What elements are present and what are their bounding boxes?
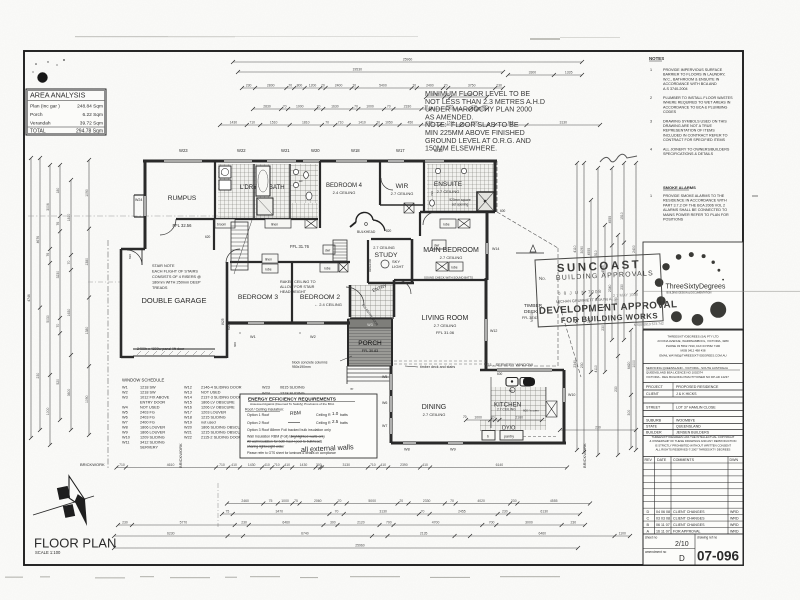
svg-text:not used: not used: [201, 421, 216, 425]
svg-text:STUDY: STUDY: [374, 252, 398, 259]
svg-text:600 f s oven: 600 f s oven: [523, 409, 539, 413]
svg-text:EMAIL WAYNE@THREESIXTYDEGREE: EMAIL WAYNE@THREESIXTYDEGREES.COM.AU: [659, 353, 726, 357]
svg-text:W20: W20: [311, 148, 320, 153]
svg-text:CLIENT CHANGES: CLIENT CHANGES: [673, 517, 705, 521]
svg-text:1012 FIX ABOVE: 1012 FIX ABOVE: [140, 396, 170, 400]
svg-text:Please refer to GTS sheet for: Please refer to GTS sheet for laminars &…: [247, 451, 336, 455]
svg-text:FFL 32.56: FFL 32.56: [173, 223, 193, 228]
svg-text:Assessed Against (Deemed To Sa: Assessed Against (Deemed To Satisfy) Pro…: [250, 402, 335, 406]
svg-text:4555: 4555: [550, 499, 558, 503]
svg-text:W22: W22: [184, 436, 192, 440]
svg-text:6230: 6230: [167, 532, 175, 536]
svg-text:WRD: WRD: [730, 523, 739, 527]
svg-text:300: 300: [316, 463, 322, 467]
svg-text:300: 300: [330, 521, 336, 525]
svg-text:PROJECT: PROJECT: [646, 385, 664, 389]
svg-text:70: 70: [338, 499, 342, 503]
svg-text:1000: 1000: [296, 105, 304, 109]
svg-text:Roof / Ceiling Insulation:: Roof / Ceiling Insulation:: [245, 408, 284, 412]
svg-text:W5: W5: [382, 375, 387, 379]
svg-text:70: 70: [56, 324, 60, 328]
svg-text:70: 70: [450, 499, 454, 503]
svg-text:SERVERY: SERVERY: [140, 446, 158, 450]
svg-text:2390: 2390: [400, 463, 408, 467]
svg-text:700: 700: [489, 521, 495, 525]
svg-text:23 IONA AVENUE, WARRNAMBOOL,: 23 IONA AVENUE, WARRNAMBOOL, VICTORIA, 3…: [657, 339, 729, 343]
svg-text:CODES: CODES: [663, 110, 677, 114]
svg-text:INCLUDED IN CONTRACT REFER T: INCLUDED IN CONTRACT REFER TO: [663, 133, 728, 137]
svg-text:600: 600: [497, 372, 503, 376]
svg-text:70: 70: [288, 84, 292, 88]
svg-text:BUILDER: BUILDER: [646, 430, 662, 434]
svg-text:04 06 08: 04 06 08: [656, 510, 670, 514]
svg-text:710: 710: [338, 121, 344, 125]
svg-text:230: 230: [511, 499, 517, 503]
svg-text:A.S 3740-2004: A.S 3740-2004: [663, 87, 688, 91]
svg-text:180mm WITH 250mm DEEP: 180mm WITH 250mm DEEP: [152, 281, 201, 285]
svg-text:JENSEN BUILDERS: JENSEN BUILDERS: [676, 430, 710, 434]
svg-text:1090: 1090: [85, 395, 89, 403]
svg-text:NOTE:- FLOOR SLAB TO BE: NOTE:- FLOOR SLAB TO BE: [425, 121, 519, 129]
svg-text:W7: W7: [122, 421, 128, 425]
svg-text:19530: 19530: [353, 68, 363, 72]
svg-text:D: D: [679, 554, 685, 563]
svg-text:2060: 2060: [314, 499, 322, 503]
svg-text:SERVICING QUEENSLAND - VICTO: SERVICING QUEENSLAND - VICTORIA - SOUTH …: [646, 366, 728, 370]
svg-text:BRICKWORK: BRICKWORK: [582, 443, 587, 468]
svg-text:DRAWING ARE NOT A TRUE: DRAWING ARE NOT A TRUE: [663, 124, 712, 128]
svg-text:2135: 2135: [420, 532, 428, 536]
svg-text:CLIENT: CLIENT: [646, 392, 660, 396]
svg-text:1218 SW: 1218 SW: [140, 391, 156, 395]
svg-text:W14: W14: [492, 247, 499, 251]
svg-text:NOT LESS THAN 2.3 METRES A.H.D: NOT LESS THAN 2.3 METRES A.H.D: [425, 98, 545, 106]
svg-text:W16: W16: [184, 406, 192, 410]
svg-text:710: 710: [249, 121, 255, 125]
svg-text:W20: W20: [184, 426, 192, 430]
svg-text:CLIENT CHANGES: CLIENT CHANGES: [673, 510, 705, 514]
svg-text:1218 SW: 1218 SW: [140, 386, 156, 390]
svg-text:25960: 25960: [355, 544, 365, 548]
svg-text:1380: 1380: [85, 327, 89, 335]
svg-text:W8: W8: [404, 448, 410, 452]
svg-text:4746: 4746: [27, 294, 31, 302]
svg-text:70: 70: [335, 510, 339, 514]
svg-text:3000: 3000: [525, 521, 533, 525]
svg-text:1000: 1000: [632, 360, 636, 368]
svg-text:STAIR NOTE: STAIR NOTE: [152, 264, 175, 268]
svg-text:5000: 5000: [368, 499, 376, 503]
svg-text:RUMPUS: RUMPUS: [168, 195, 197, 202]
svg-text:W9: W9: [450, 448, 456, 452]
svg-text:70: 70: [352, 84, 356, 88]
svg-text:4555: 4555: [608, 216, 612, 224]
svg-text:1215 SLIDING OBSCURE: 1215 SLIDING OBSCURE: [201, 431, 246, 435]
svg-text:2340: 2340: [608, 285, 612, 293]
svg-text:BARRIER TO FLOORS IN LAUNDRY: BARRIER TO FLOORS IN LAUNDRY,: [663, 73, 725, 77]
svg-text:Porch: Porch: [30, 112, 43, 118]
svg-text:W8: W8: [122, 426, 128, 430]
svg-text:03 03 08: 03 03 08: [656, 517, 670, 521]
svg-text:broom: broom: [217, 223, 226, 227]
svg-text:6740: 6740: [301, 532, 309, 536]
svg-text:230: 230: [122, 521, 128, 525]
svg-text:1430: 1430: [300, 463, 308, 467]
svg-text:6460: 6460: [282, 521, 290, 525]
svg-text:W23: W23: [179, 148, 188, 153]
svg-text:robe: robe: [451, 266, 458, 270]
svg-text:1806 SLIDING OBSCURE: 1806 SLIDING OBSCURE: [201, 426, 246, 430]
svg-text:WRD: WRD: [730, 510, 739, 514]
svg-text:set opening: set opening: [452, 203, 469, 207]
svg-text:CONTRACT FOR SPECIFIED ITEMS: CONTRACT FOR SPECIFIED ITEMS: [663, 138, 726, 142]
svg-text:W10: W10: [568, 393, 575, 397]
svg-text:2/10: 2/10: [675, 541, 689, 548]
svg-text:Option 2 Roof: Option 2 Roof: [247, 421, 269, 425]
svg-text:410: 410: [264, 463, 270, 467]
svg-text:2.4 CEILING: 2.4 CEILING: [333, 190, 356, 195]
svg-text:2146-4 SLIDING DOOR: 2146-4 SLIDING DOOR: [201, 386, 242, 390]
svg-text:WINDOW SCHEDULE: WINDOW SCHEDULE: [122, 378, 165, 383]
svg-text:520: 520: [56, 379, 60, 385]
svg-text:MINIMUM FLOOR LEVEL TO BE: MINIMUM FLOOR LEVEL TO BE: [425, 90, 530, 98]
svg-text:2460: 2460: [241, 499, 249, 503]
svg-text:W14: W14: [184, 396, 192, 400]
svg-text:3300: 3300: [529, 71, 537, 75]
svg-text:W17: W17: [396, 148, 405, 153]
svg-text:1806 LOUVER: 1806 LOUVER: [140, 426, 165, 430]
svg-text:2403 FG: 2403 FG: [140, 416, 155, 420]
svg-text:FLOOR PLAN: FLOOR PLAN: [34, 536, 116, 551]
svg-text:2115-2 SLIDING DOOR: 2115-2 SLIDING DOOR: [201, 436, 241, 440]
svg-text:2.7 CEILING: 2.7 CEILING: [391, 191, 414, 196]
svg-text:LIGHT: LIGHT: [392, 264, 404, 269]
svg-text:W2: W2: [122, 391, 128, 395]
svg-text:Verandah: Verandah: [30, 121, 51, 127]
svg-text:linen: linen: [265, 258, 272, 262]
svg-text:1510: 1510: [270, 121, 278, 125]
svg-text:1090: 1090: [85, 189, 89, 197]
svg-text:W1: W1: [250, 335, 256, 339]
svg-text:230: 230: [580, 362, 584, 368]
svg-text:710: 710: [219, 463, 225, 467]
svg-text:COMMENTS: COMMENTS: [673, 458, 695, 462]
svg-text:D: D: [647, 510, 650, 514]
svg-text:wb: wb: [509, 389, 513, 393]
svg-text:← 2.4 CEILING: ← 2.4 CEILING: [314, 302, 342, 307]
svg-text:W19: W19: [184, 421, 192, 425]
svg-text:4610: 4610: [167, 463, 175, 467]
svg-text:FFL 31.06: FFL 31.06: [436, 330, 455, 335]
svg-text:W1: W1: [122, 386, 128, 390]
svg-text:pantry: pantry: [504, 435, 514, 439]
svg-text:WRD: WRD: [730, 517, 739, 521]
svg-text:1430: 1430: [248, 463, 256, 467]
svg-text:5770: 5770: [180, 521, 188, 525]
svg-text:W10: W10: [122, 436, 130, 440]
svg-text:230: 230: [595, 426, 601, 430]
svg-text:DINING: DINING: [422, 404, 447, 411]
svg-text:up: up: [350, 387, 354, 391]
svg-text:294.78 Sqm: 294.78 Sqm: [76, 129, 103, 135]
svg-text:1.0: 1.0: [332, 411, 339, 416]
svg-text:70: 70: [491, 416, 495, 420]
svg-text:W17: W17: [184, 411, 192, 415]
svg-text:3600: 3600: [67, 389, 71, 397]
svg-text:MAIN BEDROOM: MAIN BEDROOM: [423, 247, 479, 254]
svg-text:3130: 3130: [342, 463, 350, 467]
svg-text:2.7 CEILING: 2.7 CEILING: [440, 255, 463, 260]
svg-text:1050: 1050: [385, 121, 393, 125]
svg-text:1: 1: [650, 68, 652, 72]
svg-text:L'DRY: L'DRY: [240, 185, 257, 191]
svg-text:MS(08): MS(08): [530, 311, 534, 322]
svg-text:W23: W23: [262, 386, 270, 390]
svg-text:BATH: BATH: [269, 185, 285, 191]
svg-text:230: 230: [502, 510, 508, 514]
svg-text:HEAD HEIGHT: HEAD HEIGHT: [280, 290, 307, 294]
svg-text:WOOMBYE: WOOMBYE: [676, 418, 696, 422]
svg-text:W12: W12: [490, 329, 497, 333]
svg-text:REPRESENTATION OF ITEMS: REPRESENTATION OF ITEMS: [663, 129, 715, 133]
svg-text:W7: W7: [382, 424, 387, 428]
svg-text:700: 700: [386, 521, 392, 525]
svg-text:Ceiling R: Ceiling R: [316, 413, 331, 417]
svg-text:2.5: 2.5: [332, 419, 339, 424]
svg-text:ALARMS SHALL BE CONNECTED TO: ALARMS SHALL BE CONNECTED TO: [663, 208, 727, 212]
svg-text:STREET: STREET: [646, 405, 661, 409]
svg-text:70: 70: [67, 261, 71, 265]
svg-text:3412 SLIDING: 3412 SLIDING: [140, 441, 165, 445]
svg-text:REV: REV: [645, 458, 653, 462]
svg-text:W4: W4: [122, 406, 128, 410]
svg-text:2330: 2330: [423, 499, 431, 503]
svg-text:POSITIONS: POSITIONS: [663, 218, 684, 222]
svg-text:ENTRY DOOR: ENTRY DOOR: [140, 401, 165, 405]
svg-text:DRAWING SYMBOLS USED ON THIS: DRAWING SYMBOLS USED ON THIS: [663, 119, 727, 123]
svg-text:FFL 31.76: FFL 31.76: [290, 244, 310, 249]
svg-text:5400: 5400: [379, 84, 387, 88]
svg-text:2400 FG: 2400 FG: [140, 421, 155, 425]
svg-text:2.7 CEILING: 2.7 CEILING: [497, 408, 516, 412]
svg-text:230: 230: [36, 373, 40, 379]
svg-text:EACH FLIGHT OF STAIRS: EACH FLIGHT OF STAIRS: [152, 270, 198, 274]
svg-text:2830: 2830: [263, 105, 271, 109]
svg-text:4110: 4110: [573, 245, 577, 252]
svg-text:2800: 2800: [267, 84, 275, 88]
svg-text:NOT USED: NOT USED: [201, 391, 221, 395]
svg-text:230: 230: [620, 284, 624, 290]
svg-text:VICTORIA - REG BUILDING PRACT: VICTORIA - REG BUILDING PRACTITIONER NO …: [646, 375, 729, 379]
svg-text:1215 SLIDING: 1215 SLIDING: [201, 416, 226, 420]
svg-text:LIVING ROOM: LIVING ROOM: [422, 315, 469, 322]
svg-text:J & K HICKS: J & K HICKS: [676, 392, 697, 396]
svg-text:dwr: dwr: [325, 249, 331, 253]
svg-text:150MM ELSEWHERE.: 150MM ELSEWHERE.: [425, 145, 497, 153]
svg-text:LOT 37 HAMLIN CLOSE: LOT 37 HAMLIN CLOSE: [676, 405, 716, 409]
svg-text:ENERGY EFFICIENCY REQUIREMENTS: ENERGY EFFICIENCY REQUIREMENTS: [248, 397, 336, 402]
svg-text:75: 75: [294, 499, 298, 503]
svg-text:W6: W6: [122, 416, 128, 420]
svg-text:710: 710: [274, 463, 280, 467]
svg-text:710: 710: [370, 463, 376, 467]
svg-text:RAKED CEILING TO: RAKED CEILING TO: [280, 280, 316, 284]
svg-text:AS AMENDED.: AS AMENDED.: [425, 113, 474, 121]
svg-text:16 11 07: 16 11 07: [656, 530, 670, 534]
svg-text:1810: 1810: [67, 214, 71, 222]
svg-text:70: 70: [325, 121, 329, 125]
svg-text:PROVIDE IMPERVIOUS SURFACE: PROVIDE IMPERVIOUS SURFACE: [663, 68, 723, 72]
svg-text:1410: 1410: [358, 121, 366, 125]
svg-text:76: 76: [56, 222, 60, 226]
svg-text:sheet no: sheet no: [645, 536, 657, 540]
svg-text:PROVIDE SMOKE ALARMS TO THE: PROVIDE SMOKE ALARMS TO THE: [663, 194, 725, 198]
svg-text:1200: 1200: [309, 84, 317, 88]
svg-text:1806 LV OBSCURE: 1806 LV OBSCURE: [201, 401, 235, 405]
svg-text:GROUND LEVEL AT O.R.G. AND: GROUND LEVEL AT O.R.G. AND: [425, 137, 531, 145]
svg-text:W2: W2: [310, 335, 316, 339]
svg-text:NOT USED: NOT USED: [140, 406, 160, 410]
svg-text:W5: W5: [122, 411, 128, 415]
svg-text:W6: W6: [382, 401, 387, 405]
svg-text:70: 70: [421, 510, 425, 514]
svg-text:UNDER MAROOCHY PLAN 2000: UNDER MAROOCHY PLAN 2000: [425, 106, 532, 114]
svg-text:1510: 1510: [620, 212, 624, 220]
svg-text:1206 LV OBSCURE: 1206 LV OBSCURE: [201, 406, 235, 410]
svg-text:BULKHEAD: BULKHEAD: [357, 230, 376, 234]
svg-text:6420: 6420: [627, 362, 631, 370]
svg-text:1630: 1630: [331, 105, 339, 109]
svg-text:2: 2: [650, 96, 652, 100]
svg-text:ThreeSixtyDegrees: ThreeSixtyDegrees: [666, 284, 726, 291]
svg-text:C: C: [647, 517, 650, 521]
svg-text:230: 230: [570, 521, 576, 525]
svg-text:248.84 Sqm: 248.84 Sqm: [77, 104, 103, 110]
svg-text:75: 75: [225, 510, 229, 514]
svg-text:PLUMBER TO INSTALL FLOOR WASTE: PLUMBER TO INSTALL FLOOR WASTES: [663, 96, 733, 100]
svg-text:76: 76: [46, 253, 50, 257]
svg-text:DOUBLE GARAGE: DOUBLE GARAGE: [141, 296, 206, 305]
svg-text:720: 720: [430, 191, 434, 196]
svg-text:PART 3.7.2 OF THE BCA 2006 VOL: PART 3.7.2 OF THE BCA 2006 VOL 2: [663, 203, 725, 207]
svg-text:230: 230: [496, 84, 502, 88]
svg-text:620: 620: [205, 235, 211, 239]
svg-text:MIN 225MM ABOVE FINISHED: MIN 225MM ABOVE FINISHED: [425, 129, 525, 137]
svg-text:3470: 3470: [276, 510, 284, 514]
svg-text:6460: 6460: [539, 532, 547, 536]
svg-text:wc: wc: [299, 179, 303, 183]
svg-text:70: 70: [399, 499, 403, 503]
svg-text:1100: 1100: [619, 532, 626, 536]
svg-text:MOB 0412 498 438: MOB 0412 498 438: [680, 349, 705, 353]
svg-text:70: 70: [463, 415, 467, 419]
svg-text:ALLOW FOR STAIR: ALLOW FOR STAIR: [280, 285, 315, 289]
svg-text:2137-3 SLIDING DOOR: 2137-3 SLIDING DOOR: [201, 396, 242, 400]
svg-text:Ceiling R: Ceiling R: [316, 421, 331, 425]
svg-text:6.22 Sqm: 6.22 Sqm: [82, 112, 103, 118]
svg-text:WHERE REQUIRED TO WET AREAS IN: WHERE REQUIRED TO WET AREAS IN: [663, 101, 731, 105]
svg-text:410: 410: [284, 463, 290, 467]
svg-text:W11: W11: [122, 441, 130, 445]
svg-text:410: 410: [231, 463, 237, 467]
svg-text:1000: 1000: [46, 408, 50, 416]
svg-text:3130: 3130: [379, 510, 387, 514]
svg-text:QUEENSLAND BSA LICENCE NO 10: QUEENSLAND BSA LICENCE NO 1002374: [646, 371, 703, 375]
svg-text:1: 1: [650, 194, 652, 198]
svg-text:4555: 4555: [587, 248, 591, 256]
svg-text:230: 230: [246, 84, 252, 88]
svg-text:DATE: DATE: [657, 458, 667, 462]
svg-text:4676: 4676: [36, 236, 40, 244]
svg-text:25960: 25960: [403, 58, 413, 62]
svg-text:1430: 1430: [230, 121, 238, 125]
svg-text:3750: 3750: [468, 84, 476, 88]
svg-text:4110: 4110: [594, 365, 598, 372]
svg-text:39.72 Sqm: 39.72 Sqm: [80, 121, 103, 127]
svg-text:robe: robe: [324, 267, 331, 271]
svg-text:07-096: 07-096: [697, 549, 740, 564]
svg-text:800: 800: [297, 84, 303, 88]
svg-text:1000: 1000: [366, 105, 374, 109]
svg-text:2330: 2330: [404, 105, 412, 109]
svg-text:block concrete columns: block concrete columns: [292, 361, 328, 365]
svg-text:1806 LOUVER: 1806 LOUVER: [140, 431, 165, 435]
svg-text:230: 230: [241, 521, 247, 525]
svg-text:W21: W21: [281, 148, 290, 153]
svg-text:2.7 CEILING: 2.7 CEILING: [423, 412, 446, 417]
svg-text:W24: W24: [135, 198, 142, 202]
svg-text:Plan (inc gar ): Plan (inc gar ): [30, 104, 60, 110]
svg-text:2.7 CEILING: 2.7 CEILING: [373, 246, 395, 250]
svg-text:950x190mm: 950x190mm: [292, 365, 311, 369]
svg-text:THREESIXTYDEGREES (SA) PTY LTD: THREESIXTYDEGREES (SA) PTY LTD: [667, 335, 718, 339]
svg-text:ENSUITE: ENSUITE: [434, 181, 463, 188]
svg-text:ALL JOINERY TO OWNERS/BUILDERS: ALL JOINERY TO OWNERS/BUILDERS: [663, 147, 730, 151]
svg-text:2400: 2400: [632, 245, 636, 253]
svg-text:timber deck and stairs: timber deck and stairs: [420, 365, 455, 369]
svg-text:2.7 CEILING: 2.7 CEILING: [434, 323, 457, 328]
svg-text:b: b: [487, 435, 489, 439]
svg-text:3230: 3230: [56, 271, 60, 279]
svg-text:2120: 2120: [357, 521, 365, 525]
svg-text:Wall Insulation RBM (Foil) t: Wall Insulation RBM (Foil) to: [247, 435, 292, 439]
svg-text:4700: 4700: [432, 521, 440, 525]
svg-text:450: 450: [407, 121, 413, 125]
svg-text:W13: W13: [184, 391, 192, 395]
svg-text:70: 70: [376, 121, 380, 125]
svg-text:1000: 1000: [281, 499, 289, 503]
svg-text:CONSISTS OF 4 RISERS @: CONSISTS OF 4 RISERS @: [152, 275, 201, 279]
svg-text:6130: 6130: [540, 510, 548, 514]
svg-text:PHONE 03 5562 7190, FAX 03 5: PHONE 03 5562 7190, FAX 03 5562 7190: [666, 344, 721, 348]
svg-text:W9: W9: [122, 431, 128, 435]
svg-text:W12: W12: [184, 386, 192, 390]
svg-text:BEDROOM 4: BEDROOM 4: [326, 183, 363, 189]
svg-text:W3: W3: [367, 323, 372, 327]
svg-text:DY/O: DY/O: [502, 426, 516, 432]
svg-text:230: 230: [614, 386, 618, 392]
svg-text:3: 3: [650, 119, 652, 123]
svg-text:W.C., BATHROOM & ENSUITE IN: W.C., BATHROOM & ENSUITE IN: [663, 77, 720, 81]
svg-text:BRICKWORK: BRICKWORK: [80, 462, 105, 467]
svg-text:WIR: WIR: [396, 183, 409, 190]
svg-text:ALL RIGHTS RESERVED © 2007 TH: ALL RIGHTS RESERVED © 2007 THREESIXTY DE…: [656, 448, 731, 452]
svg-text:70: 70: [444, 84, 448, 88]
svg-text:NOTES: NOTES: [649, 56, 664, 61]
svg-text:RESIDENCE IN ACCORDANCE WITH: RESIDENCE IN ACCORDANCE WITH: [663, 199, 727, 203]
svg-text:linen: linen: [271, 223, 278, 227]
svg-text:230: 230: [601, 325, 605, 331]
